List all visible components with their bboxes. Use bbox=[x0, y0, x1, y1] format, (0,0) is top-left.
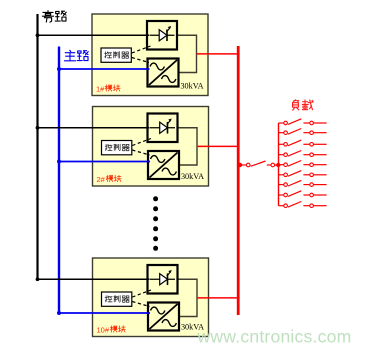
svg-text:2#: 2# bbox=[97, 175, 106, 184]
wire: bypass bus vertical (旁路) bbox=[36, 14, 38, 280]
inverter box module 1# bbox=[148, 59, 179, 87]
wire: rectifier output to connector (module 2#) bbox=[178, 128, 198, 165]
wire: bypass feed into module 1# bbox=[37, 34, 150, 36]
wire: module 1# red output feed to parallel bus bbox=[197, 53, 240, 55]
wire: main feed into module 2# (blue) bbox=[58, 161, 150, 163]
junction dot on load distribution bus bbox=[276, 163, 280, 167]
label 控制器 (controller) module 2# bbox=[105, 144, 112, 150]
load branch 5: stub, switch blade, contact, line bbox=[279, 164, 284, 166]
load branch 7: stub, switch blade, contact, line bbox=[279, 184, 284, 186]
wire: rectifier output to connector (module 10#) bbox=[178, 279, 198, 316]
svg-text:30kVA: 30kVA bbox=[181, 172, 204, 181]
controller box module 2# bbox=[102, 141, 132, 155]
thyristor/diode symbol module 10# bbox=[150, 278, 175, 280]
load branch 1: stub, switch blade, contact, line bbox=[279, 122, 284, 124]
controller box module 10# bbox=[102, 292, 132, 306]
wire: main feed into module 10# (blue) bbox=[58, 312, 150, 314]
thyristor/diode symbol module 1# bbox=[150, 34, 175, 36]
wire: bypass feed into module 2# bbox=[37, 127, 150, 129]
svg-text:1#: 1# bbox=[96, 85, 105, 94]
label 主路 (main) bbox=[64, 50, 75, 60]
wire: parallel output bus (red vertical) bbox=[237, 46, 240, 315]
junction: main bus to module 1# bbox=[57, 67, 61, 71]
rectifier (bypass static switch) box module 2# bbox=[148, 114, 178, 143]
ellipsis dots (more modules) bbox=[153, 196, 158, 201]
rectifier (bypass static switch) box module 10# bbox=[148, 265, 178, 294]
dashed control line to inverter module 10# bbox=[132, 302, 149, 307]
wire: module 2# red output feed to parallel bus bbox=[197, 145, 240, 147]
svg-text:10#: 10# bbox=[97, 326, 110, 335]
dashed control line to rectifier module 1# bbox=[132, 46, 151, 53]
junction: bypass bus to module 2# bbox=[36, 126, 40, 130]
load branch 8: stub, switch blade, contact, line bbox=[279, 194, 284, 196]
load branch 3: stub, switch blade, contact, line bbox=[279, 143, 284, 145]
svg-text:30kVA: 30kVA bbox=[180, 82, 203, 91]
wire: main bus vertical (主路) bbox=[58, 47, 60, 315]
load branch 4: stub, switch blade, contact, line bbox=[279, 154, 284, 156]
load branch 6: stub, switch blade, contact, line bbox=[279, 174, 284, 176]
inverter box module 10# bbox=[148, 303, 179, 331]
inverter box module 2# bbox=[148, 151, 179, 179]
label 控制器 (controller) module 10# bbox=[105, 296, 112, 302]
junction dot on output bus bbox=[238, 163, 242, 167]
load branch 2: stub, switch blade, contact, line bbox=[279, 132, 284, 134]
inverter diagonal and sine symbols module 2# bbox=[150, 153, 178, 178]
junction: main bus to module 2# bbox=[57, 160, 61, 164]
rectifier (bypass static switch) box module 1# bbox=[147, 21, 177, 50]
dashed control line to rectifier module 2# bbox=[132, 139, 151, 146]
label 负载 (load) bbox=[293, 100, 299, 110]
label 控制器 (controller) module 1# bbox=[105, 52, 112, 58]
dashed control line to rectifier module 10# bbox=[132, 290, 151, 297]
wire: module 10# red output feed to parallel bus bbox=[197, 297, 240, 299]
junction: bypass bus to module 1# bbox=[36, 33, 40, 37]
controller box module 1# bbox=[101, 48, 131, 62]
dashed control line to inverter module 2# bbox=[132, 150, 149, 155]
junction: main bus to module 10# bbox=[57, 311, 61, 315]
label 旁路 (bypass) bbox=[42, 11, 53, 22]
UPS module 1# box bbox=[92, 14, 208, 96]
UPS module 10# box bbox=[93, 258, 209, 337]
junction: bypass bus to module 10# bbox=[36, 277, 40, 281]
dashed control line to inverter module 1# bbox=[132, 58, 149, 63]
svg-text:www.cntronics.com: www.cntronics.com bbox=[197, 327, 352, 347]
wire + main breaker switch to load bus bbox=[240, 164, 246, 166]
wire: load distribution bus (red vertical) bbox=[278, 123, 280, 206]
wire: main feed into module 1# (blue) bbox=[58, 68, 150, 70]
inverter diagonal and sine symbols module 10# bbox=[150, 304, 178, 329]
thyristor/diode symbol module 2# bbox=[150, 127, 175, 129]
inverter diagonal and sine symbols module 1# bbox=[149, 60, 177, 85]
UPS module 2# box bbox=[93, 107, 209, 187]
wire: bypass feed into module 10# bbox=[37, 278, 150, 280]
load branch 9: stub, switch blade, contact, line bbox=[279, 205, 284, 207]
wire: rectifier output to connector (module 1#) bbox=[177, 35, 197, 72]
